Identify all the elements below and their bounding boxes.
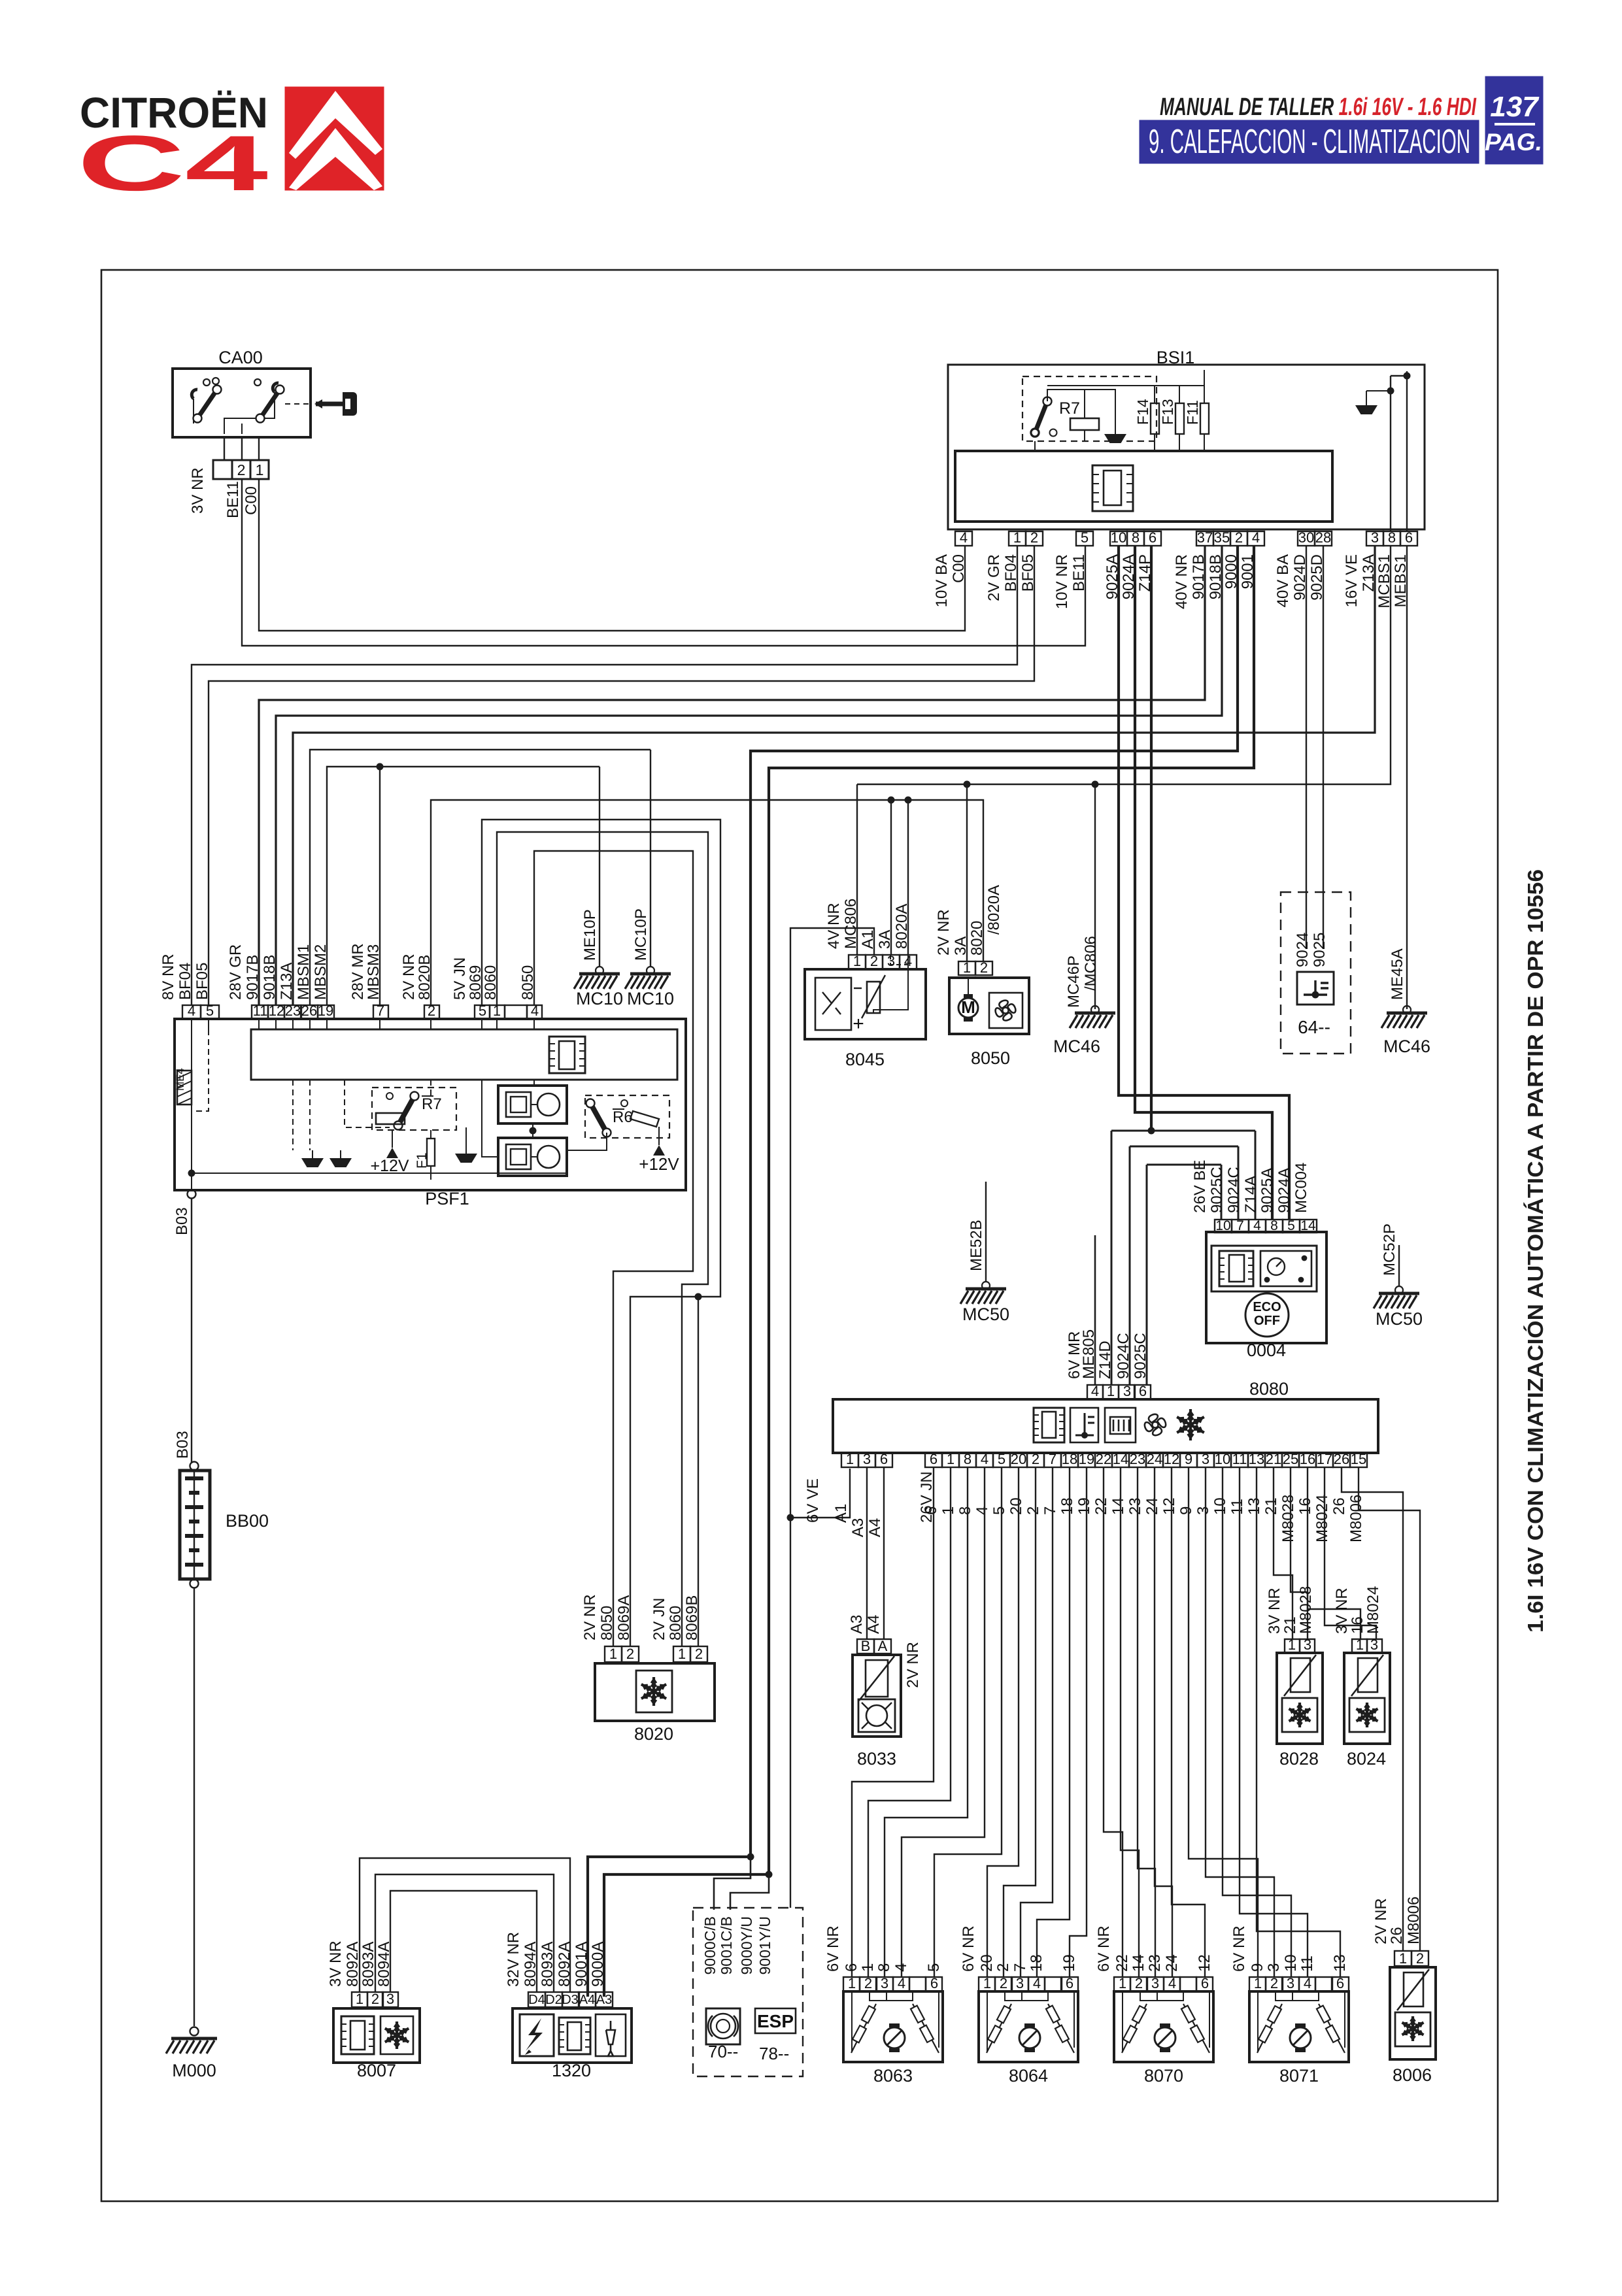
svg-text:14: 14	[1300, 1218, 1316, 1233]
fuse F11	[1184, 370, 1209, 451]
svg-text:18: 18	[1028, 1954, 1045, 1972]
svg-text:PSF1: PSF1	[425, 1189, 469, 1208]
svg-text:3V NR: 3V NR	[1266, 1588, 1283, 1634]
svg-text:10V NR: 10V NR	[1053, 554, 1071, 609]
svg-text:9000A: 9000A	[589, 1942, 607, 1987]
PSF1 bottom rail	[192, 1173, 567, 1174]
ground M000	[166, 2027, 217, 2081]
svg-text:Z14A: Z14A	[1242, 1176, 1260, 1213]
connector of 8024	[1352, 1639, 1367, 1653]
wire 9017B	[259, 546, 1205, 1005]
svg-text:A4: A4	[865, 1615, 883, 1634]
wire 9024C to 0004	[1238, 1146, 1240, 1220]
svg-text:M8028: M8028	[1297, 1586, 1315, 1634]
svg-text:8: 8	[964, 1451, 972, 1467]
svg-text:MC46: MC46	[1053, 1037, 1100, 1056]
svg-text:23: 23	[1130, 1451, 1145, 1467]
wire 12 to actuator	[1172, 1467, 1205, 1977]
svg-text:1: 1	[983, 1975, 991, 1991]
svg-text:F14: F14	[1134, 399, 1151, 425]
ground lead MC46P	[1094, 784, 1096, 1009]
connector of 8033	[857, 1639, 874, 1654]
svg-text:8006: 8006	[1393, 2065, 1432, 2085]
svg-text:9: 9	[1177, 1506, 1195, 1515]
svg-text:23: 23	[285, 1003, 301, 1019]
sensor 8006	[1390, 1967, 1436, 2085]
wire 9000C/B stub to ESP	[714, 1857, 751, 1910]
component 8050	[949, 978, 1029, 1068]
svg-text:5: 5	[1081, 529, 1089, 546]
svg-text:1: 1	[1119, 1975, 1126, 1991]
svg-text:2: 2	[1135, 1975, 1143, 1991]
svg-text:9001A: 9001A	[573, 1942, 590, 1987]
svg-text:2V NR: 2V NR	[935, 909, 953, 956]
svg-text:4V NR: 4V NR	[825, 903, 843, 949]
svg-text:BE11: BE11	[224, 481, 242, 518]
IC symbol U-BSI	[1092, 465, 1133, 511]
svg-text:A1: A1	[859, 930, 877, 949]
svg-text:6: 6	[880, 1451, 888, 1467]
wire Z14A to 0004	[1255, 1131, 1257, 1220]
svg-text:8007: 8007	[357, 2061, 396, 2080]
svg-text:70--: 70--	[708, 2042, 738, 2061]
actuator motor 8071	[1249, 1991, 1349, 2086]
svg-text:22: 22	[1113, 1954, 1131, 1972]
svg-text:2V NR: 2V NR	[1372, 1898, 1390, 1944]
svg-text:2: 2	[1270, 1975, 1278, 1991]
+12V arrow left in PSF1	[386, 1148, 398, 1158]
svg-text:M: M	[961, 997, 975, 1017]
svg-text:7: 7	[1041, 1506, 1059, 1515]
wire 3 to actuator	[1206, 1467, 1274, 1977]
svg-text:5: 5	[998, 1451, 1005, 1467]
svg-text:6: 6	[1149, 529, 1157, 546]
svg-text:20: 20	[978, 1954, 996, 1972]
control panel 0004	[1206, 1232, 1326, 1360]
svg-text:6V NR: 6V NR	[960, 1925, 977, 1972]
svg-text:1: 1	[1013, 529, 1021, 546]
svg-text:15: 15	[1351, 1451, 1366, 1467]
svg-text:9025: 9025	[1311, 933, 1328, 967]
svg-text:1: 1	[963, 959, 971, 976]
wire 4 to actuator	[902, 1467, 985, 1977]
svg-text:1: 1	[848, 1975, 856, 1991]
connector 2 of 8020	[673, 1646, 690, 1662]
svg-text:MC10P: MC10P	[632, 908, 650, 961]
svg-text:7: 7	[1011, 1963, 1029, 1972]
svg-text:2: 2	[1024, 1506, 1042, 1515]
BSI1 bottom connector row	[955, 529, 1417, 546]
junction 8069 split	[695, 1293, 702, 1301]
svg-text:3: 3	[1371, 529, 1379, 546]
svg-text:3: 3	[1151, 1975, 1159, 1991]
svg-text:7: 7	[377, 1003, 384, 1019]
svg-text:3V NR: 3V NR	[189, 467, 207, 514]
svg-text:2: 2	[870, 953, 878, 969]
driver stage 1 in PSF1	[498, 1086, 567, 1123]
svg-text:MC10: MC10	[576, 989, 623, 1008]
svg-text:B03: B03	[174, 1431, 192, 1459]
svg-text:12: 12	[269, 1003, 284, 1019]
connector of 0004	[1215, 1220, 1232, 1233]
resistor pack 8020	[595, 1663, 715, 1744]
svg-text:C4: C4	[77, 120, 268, 207]
svg-text:6: 6	[922, 1506, 940, 1515]
wire 21 to 8028	[1274, 1467, 1293, 1639]
wire 24 to actuator	[1155, 1467, 1172, 1977]
svg-text:4: 4	[1033, 1975, 1041, 1991]
svg-text:2: 2	[1032, 1451, 1039, 1467]
module 8007	[333, 2008, 420, 2080]
svg-text:22: 22	[1096, 1451, 1111, 1467]
svg-text:CA00: CA00	[218, 348, 263, 367]
svg-text:A1: A1	[832, 1504, 850, 1523]
svg-text:8060: 8060	[482, 965, 499, 1000]
svg-text:F13: F13	[1159, 399, 1176, 425]
svg-text:9. CALEFACCION - CLIMATIZACION: 9. CALEFACCION - CLIMATIZACION	[1149, 123, 1470, 161]
svg-text:1: 1	[678, 1646, 686, 1662]
junction between driver stages	[530, 1127, 537, 1135]
svg-text:8033: 8033	[857, 1749, 896, 1769]
wire 8020 rail	[431, 800, 983, 1005]
ABS icon	[706, 2008, 740, 2044]
svg-text:26: 26	[1388, 1927, 1406, 1944]
svg-text:12: 12	[1160, 1497, 1178, 1515]
ESP label box	[755, 2008, 796, 2033]
svg-text:ESP: ESP	[757, 2011, 794, 2031]
svg-text:137: 137	[1490, 91, 1540, 123]
svg-text:40V BA: 40V BA	[1274, 554, 1292, 607]
PSF1 top connector row	[182, 1003, 542, 1019]
svg-text:10: 10	[1215, 1451, 1230, 1467]
svg-text:3: 3	[1194, 1506, 1212, 1515]
svg-text:2: 2	[980, 959, 988, 976]
wire 8050 from PSF1	[534, 851, 693, 1646]
svg-text:9024C: 9024C	[1225, 1167, 1243, 1213]
wire 18 to actuator	[1037, 1467, 1070, 1977]
svg-text:6: 6	[843, 1963, 860, 1972]
svg-text:8: 8	[1388, 529, 1396, 546]
svg-text:8028: 8028	[1279, 1749, 1319, 1769]
svg-text:6V NR: 6V NR	[1095, 1925, 1113, 1972]
sensor 8033	[853, 1655, 901, 1769]
svg-text:9024: 9024	[1294, 933, 1311, 967]
connector of 8028	[1285, 1639, 1300, 1653]
svg-text:8: 8	[1270, 1218, 1278, 1233]
fuse F13	[1159, 386, 1184, 451]
wire 9025C to 0004	[1221, 1165, 1223, 1220]
wire battery to ground	[194, 1588, 195, 2026]
wire MBSM3	[379, 767, 380, 1005]
PSF1 inner electronics box	[251, 1029, 677, 1080]
svg-text:8020: 8020	[968, 921, 986, 956]
wire 14 to actuator	[1121, 1467, 1139, 1977]
PSF1 internal dashed drops	[191, 1019, 192, 1029]
svg-text:3V NR: 3V NR	[1333, 1588, 1351, 1634]
svg-text:4: 4	[973, 1506, 991, 1515]
sensor 8028	[1277, 1653, 1323, 1769]
connector of 1320	[528, 1992, 545, 2007]
svg-text:BB00: BB00	[226, 1511, 269, 1531]
wire 23 to actuator	[1138, 1467, 1155, 1977]
ignition key symbol	[314, 392, 357, 416]
svg-text:4: 4	[1252, 529, 1260, 546]
svg-text:3V NR: 3V NR	[327, 1940, 345, 1987]
svg-text:9017B: 9017B	[244, 955, 262, 1000]
junction MBSM2 to MBSM3	[377, 763, 384, 771]
svg-text:4: 4	[531, 1003, 539, 1019]
svg-text:MC46P: MC46P	[1065, 956, 1083, 1008]
connector of 8050	[958, 961, 975, 975]
svg-text:2: 2	[695, 1646, 703, 1662]
svg-text:26: 26	[1334, 1451, 1349, 1467]
svg-text:8: 8	[875, 1963, 893, 1972]
connector of 8064	[979, 1977, 995, 1991]
svg-text:20: 20	[1011, 1451, 1026, 1467]
svg-text:25: 25	[1283, 1451, 1298, 1467]
svg-text:PAG.: PAG.	[1485, 129, 1542, 156]
svg-text:8020: 8020	[634, 1724, 673, 1744]
svg-text:4: 4	[188, 1003, 195, 1019]
svg-text:ME45A: ME45A	[1389, 948, 1406, 1000]
svg-text:6: 6	[1139, 1383, 1147, 1399]
wire 9025C rail	[1147, 1164, 1221, 1166]
ground MC46 left	[1091, 1006, 1099, 1014]
svg-text:4: 4	[1253, 1218, 1261, 1233]
svg-text:8063: 8063	[873, 2066, 913, 2086]
svg-text:8050: 8050	[598, 1606, 616, 1640]
svg-text:10: 10	[1111, 529, 1126, 546]
junction 3A splice	[964, 781, 971, 788]
svg-text:R6: R6	[613, 1108, 633, 1126]
svg-text:8060: 8060	[667, 1606, 684, 1640]
svg-text:9025A: 9025A	[1259, 1168, 1276, 1213]
svg-text:10: 10	[1215, 1218, 1230, 1233]
ground MC10 left	[596, 967, 603, 974]
svg-text:5: 5	[925, 1963, 943, 1972]
svg-text:13: 13	[1331, 1954, 1349, 1972]
wire 22 to actuator	[1104, 1467, 1123, 1977]
wire ME805	[1094, 1235, 1096, 1385]
svg-text:3: 3	[1016, 1975, 1024, 1991]
svg-text:16: 16	[1300, 1451, 1315, 1467]
wire MBSM1	[310, 750, 650, 1005]
svg-text:A4: A4	[579, 1993, 595, 2007]
wire 9018B	[276, 546, 1222, 1005]
BSI1 box	[948, 348, 1425, 529]
PSF1 box	[175, 1019, 686, 1208]
wire 6 to actuator	[852, 1467, 934, 1977]
svg-text:/MC806: /MC806	[1082, 936, 1100, 991]
svg-text:2: 2	[1030, 529, 1038, 546]
svg-text:A: A	[878, 1638, 888, 1654]
sensor 8024	[1344, 1653, 1390, 1769]
svg-text:MC52P: MC52P	[1381, 1223, 1398, 1276]
svg-text:BF04: BF04	[177, 963, 194, 1000]
relay R7 in PSF1	[372, 1088, 456, 1130]
svg-text:24: 24	[1147, 1451, 1162, 1467]
svg-text:4: 4	[1304, 1975, 1311, 1991]
svg-text:MC10: MC10	[627, 989, 674, 1008]
svg-text:9000Y/U: 9000Y/U	[738, 1916, 755, 1975]
junction 9000 splice	[747, 1854, 754, 1861]
ground right of F1 in PSF1	[455, 1154, 477, 1163]
top connector of 8080	[1087, 1385, 1103, 1399]
wire 5 to actuator	[934, 1467, 1002, 1977]
svg-text:10V BA: 10V BA	[933, 554, 951, 607]
svg-text:D4: D4	[528, 1993, 545, 2007]
svg-text:14: 14	[1109, 1497, 1127, 1515]
wire M8024 to 8024	[1325, 1467, 1376, 1639]
svg-text:23: 23	[1126, 1497, 1144, 1515]
ground in BSI for R7	[1104, 434, 1126, 443]
connector of 8071	[1249, 1977, 1266, 1991]
svg-text:/8020A: /8020A	[985, 885, 1003, 935]
svg-text:6: 6	[1066, 1975, 1073, 1991]
svg-text:A3: A3	[849, 1518, 867, 1537]
svg-text:9: 9	[1185, 1451, 1192, 1467]
connector 1 of 8020	[605, 1646, 622, 1662]
svg-text:8: 8	[956, 1506, 974, 1515]
svg-text:MC50: MC50	[962, 1305, 1009, 1324]
connector of CA00 pins 2 1	[213, 437, 269, 479]
actuator motor 8070	[1114, 1991, 1213, 2086]
svg-text:MC50: MC50	[1376, 1309, 1423, 1329]
svg-text:7: 7	[1049, 1451, 1056, 1467]
svg-text:MC46: MC46	[1383, 1037, 1430, 1056]
wire A1 into 8080	[790, 1469, 850, 1518]
svg-text:5: 5	[479, 1003, 486, 1019]
svg-text:1.6I 16V CON CLIMATIZACIÓN AUT: 1.6I 16V CON CLIMATIZACIÓN AUTOMÁTICA A …	[1523, 869, 1547, 1633]
+12V arrow right in PSF1	[653, 1145, 665, 1156]
svg-text:19: 19	[1060, 1954, 1078, 1972]
svg-text:8: 8	[1132, 529, 1140, 546]
svg-text:MC004: MC004	[1293, 1163, 1310, 1213]
wire 16 to 8024	[1308, 1467, 1360, 1639]
wire 26 to 8006	[1342, 1467, 1403, 1951]
svg-text:28V GR: 28V GR	[227, 944, 245, 1000]
svg-text:7: 7	[1236, 1218, 1244, 1233]
wire 9 to actuator	[1189, 1467, 1258, 1977]
svg-text:9001C/B: 9001C/B	[718, 1916, 735, 1975]
ground MC46 right	[1403, 1006, 1411, 1014]
wire BF05	[209, 546, 1034, 1005]
svg-text:5: 5	[990, 1506, 1008, 1515]
diagram border frame	[101, 270, 1498, 2201]
junction MC46P ground branch	[1092, 781, 1099, 788]
svg-text:3: 3	[1265, 1963, 1283, 1972]
svg-text:4: 4	[1091, 1383, 1099, 1399]
ground in BSI top right	[1355, 405, 1377, 414]
svg-text:2: 2	[864, 1975, 872, 1991]
svg-text:8071: 8071	[1279, 2066, 1319, 2086]
bottom connector of 8080 main group	[925, 1453, 942, 1467]
svg-text:1: 1	[609, 1646, 617, 1662]
ignition switch CA00	[173, 348, 311, 437]
svg-text:10: 10	[1282, 1954, 1300, 1972]
svg-text:ME4: ME4	[174, 1068, 186, 1091]
svg-text:8069A: 8069A	[615, 1595, 633, 1640]
svg-text:24: 24	[1163, 1954, 1181, 1972]
svg-text:9018B: 9018B	[261, 955, 279, 1000]
svg-text:9025C: 9025C	[1132, 1333, 1149, 1379]
svg-text:10: 10	[1211, 1497, 1229, 1515]
svg-text:6: 6	[1336, 1975, 1344, 1991]
svg-text:8050: 8050	[519, 965, 537, 1000]
wire 8069 from PSF1	[482, 820, 720, 1646]
wire MBSM2	[327, 767, 600, 1005]
wire 9000A to 1320	[604, 1874, 769, 1997]
svg-text:11: 11	[253, 1003, 268, 1019]
svg-text:1: 1	[356, 1991, 363, 2007]
svg-text:17: 17	[1317, 1451, 1332, 1467]
wire M8028 to 8028	[1291, 1467, 1308, 1639]
svg-text:64--: 64--	[1298, 1017, 1330, 1037]
svg-text:M8024: M8024	[1313, 1495, 1331, 1542]
svg-text:18: 18	[1062, 1451, 1077, 1467]
svg-text:8V NR: 8V NR	[160, 954, 177, 1000]
svg-text:19: 19	[318, 1003, 333, 1019]
connector of 8063	[843, 1977, 860, 1991]
svg-text:ME10P: ME10P	[581, 909, 599, 961]
svg-text:1: 1	[1254, 1975, 1262, 1991]
svg-text:2V NR: 2V NR	[400, 954, 418, 1000]
svg-text:A4: A4	[866, 1518, 884, 1537]
svg-text:6: 6	[1201, 1975, 1209, 1991]
grounds inside PSF1	[301, 1158, 324, 1167]
svg-text:2V JN: 2V JN	[650, 1598, 668, 1640]
wire 2 to actuator	[1004, 1467, 1036, 1977]
wire Z13A	[293, 546, 1375, 1005]
svg-text:A3: A3	[848, 1615, 866, 1634]
wire 9024D	[1306, 546, 1307, 949]
svg-text:2V GR: 2V GR	[985, 554, 1003, 601]
wire 9024A BSI to 0004	[1135, 546, 1272, 1220]
ground MC50 right	[1398, 1245, 1400, 1287]
ground lead ME10P	[599, 767, 600, 967]
svg-text:4: 4	[981, 1451, 988, 1467]
wire BE11	[242, 479, 1085, 646]
junction Z14 node	[1148, 1127, 1155, 1135]
hatch box ME4 MF5 in PSF1	[174, 1068, 192, 1105]
svg-text:19: 19	[1079, 1451, 1094, 1467]
svg-text:0004: 0004	[1247, 1340, 1286, 1360]
svg-text:9025C: 9025C	[1208, 1167, 1226, 1213]
connector of 8007	[352, 1992, 367, 2007]
svg-text:23: 23	[1146, 1954, 1164, 1972]
svg-text:1: 1	[1356, 1637, 1364, 1653]
junction 9001 splice	[766, 1871, 773, 1878]
wire 9025A BSI to 0004	[1119, 546, 1289, 1220]
svg-text:4: 4	[960, 529, 968, 546]
svg-text:2: 2	[994, 1963, 1012, 1972]
svg-text:16: 16	[1349, 1616, 1366, 1634]
svg-text:ECO: ECO	[1253, 1300, 1281, 1314]
wire 8060 from PSF1	[497, 832, 708, 1646]
svg-text:3: 3	[1123, 1383, 1131, 1399]
wire 19 to actuator	[1070, 1467, 1087, 1977]
svg-text:3A: 3A	[876, 930, 894, 949]
B03 connector circle	[188, 1190, 196, 1199]
svg-text:3: 3	[1370, 1637, 1378, 1653]
svg-text:26V BE: 26V BE	[1191, 1160, 1209, 1213]
svg-text:4: 4	[1168, 1975, 1176, 1991]
wire 1 to actuator	[868, 1467, 951, 1977]
svg-text:5: 5	[206, 1003, 214, 1019]
svg-text:3A: 3A	[952, 937, 970, 956]
svg-text:1: 1	[493, 1003, 501, 1019]
svg-text:4: 4	[904, 953, 912, 969]
